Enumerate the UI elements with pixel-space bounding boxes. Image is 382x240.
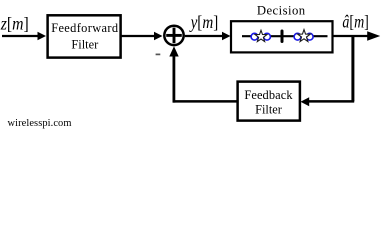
decision icon: blue circle 1 bbox=[251, 33, 258, 40]
svg-text:Filter: Filter bbox=[71, 38, 99, 52]
decision icon: constellation axis line bbox=[242, 35, 328, 37]
wire: feedback tap down from output bbox=[351, 36, 354, 101]
summing junction bbox=[164, 26, 183, 45]
wire: decision output arrow bbox=[333, 31, 381, 41]
svg-text:Feedback: Feedback bbox=[244, 88, 293, 102]
block decision device bbox=[231, 21, 333, 52]
decision icon: blue circle 4 bbox=[306, 33, 313, 40]
svg-text:z[m]: z[m] bbox=[0, 14, 29, 34]
minus sign at summing junction bbox=[156, 53, 161, 55]
svg-text:Decision: Decision bbox=[257, 4, 306, 18]
svg-text:wirelesspi.com: wirelesspi.com bbox=[8, 118, 72, 129]
wire: feedforward filter to summing junction bbox=[121, 32, 163, 41]
decision icon: star 1 bbox=[255, 30, 267, 41]
decision icon: blue circle 2 bbox=[264, 33, 271, 40]
decision icon: blue circle 3 bbox=[294, 33, 301, 40]
svg-text:y[m]: y[m] bbox=[189, 12, 218, 32]
svg-text:Feedforward: Feedforward bbox=[51, 21, 119, 35]
block Feedforward Filter bbox=[48, 15, 121, 57]
wire: input arrow into feedforward filter bbox=[2, 32, 46, 41]
block Feedback Filter bbox=[238, 82, 300, 121]
decision icon: star 2 bbox=[298, 30, 311, 42]
decision icon: center tick bbox=[281, 31, 284, 42]
svg-text:â[m]: â[m] bbox=[342, 13, 368, 32]
wire: bottom feedback into feedback filter bbox=[301, 97, 355, 106]
svg-text:Filter: Filter bbox=[255, 103, 283, 117]
wire: feedback filter to summing junction bbox=[169, 46, 236, 102]
wire: summing junction to decision block bbox=[185, 32, 231, 41]
